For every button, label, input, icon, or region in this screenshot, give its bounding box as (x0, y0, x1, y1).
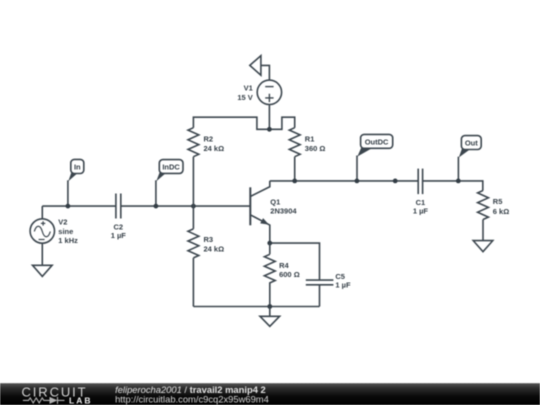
svg-text:15 V: 15 V (237, 93, 252, 102)
svg-text:R5: R5 (493, 197, 503, 206)
node V1 rail junction (267, 127, 272, 132)
svg-text:R4: R4 (279, 261, 289, 270)
svg-text:R2: R2 (204, 135, 214, 144)
node R4 C5 ground junction (267, 304, 272, 309)
svg-text:2N3904: 2N3904 (270, 207, 297, 216)
wire R1 bottom lead (294, 157, 296, 181)
footer title text (115, 384, 269, 404)
flag label InDC (156, 160, 183, 207)
wire R3 bottom lead (192, 258, 194, 307)
svg-text:Out: Out (465, 139, 478, 148)
svg-text:R1: R1 (305, 135, 315, 144)
svg-text:C1: C1 (416, 198, 426, 207)
svg-text:R3: R3 (204, 235, 214, 244)
svg-text:V2: V2 (58, 218, 67, 227)
svg-text:24 kΩ: 24 kΩ (204, 144, 225, 153)
svg-text:360 Ω: 360 Ω (305, 144, 326, 153)
node InDC junction (154, 204, 159, 209)
svg-text:24 kΩ: 24 kΩ (204, 245, 225, 254)
flag label Out (458, 136, 481, 181)
svg-text:OutDC: OutDC (365, 137, 389, 146)
resistor R3 (188, 229, 199, 258)
svg-text:1 µF: 1 µF (335, 280, 351, 289)
node mid wire junction (393, 179, 398, 184)
node OutDC junction (355, 179, 360, 184)
wire input left segment (42, 205, 116, 207)
voltage source V2 (30, 219, 54, 243)
wire R2 bottom lead (192, 157, 194, 229)
wire input right segment (121, 205, 251, 207)
svg-text:1 kHz: 1 kHz (58, 236, 78, 245)
svg-text:sine: sine (58, 227, 73, 236)
svg-text:1 µF: 1 µF (111, 231, 127, 240)
wire collector output segment (270, 180, 418, 182)
resistor R4 (264, 243, 275, 306)
resistor R5 (478, 191, 489, 220)
footer bar (0, 383, 540, 405)
svg-text:In: In (74, 162, 81, 171)
wire C1 to R5 (423, 181, 483, 191)
transistor Q1 (250, 181, 269, 243)
svg-text:C2: C2 (114, 223, 124, 232)
ground at V1 top (250, 56, 261, 76)
wire top rail (193, 117, 294, 129)
node collector junction (292, 179, 297, 184)
wire emitter to C5 (270, 243, 320, 280)
ground under R5 (473, 220, 493, 252)
flag label In (68, 159, 84, 206)
ground under emitter network (260, 307, 280, 327)
capacitor C1 (418, 169, 422, 195)
node emitter junction (267, 241, 272, 246)
CircuitLab logo (22, 385, 93, 405)
voltage source V1 (257, 65, 281, 129)
wire V2 top lead (41, 206, 43, 219)
svg-text:V1: V1 (244, 84, 253, 93)
svg-text:http://circuitlab.com/c9cq2x95: http://circuitlab.com/c9cq2x95w69m4 (115, 393, 269, 404)
ground under V2 (33, 243, 53, 276)
node base junction (191, 204, 196, 209)
flag label OutDC (357, 134, 393, 181)
node In junction (66, 204, 71, 209)
svg-text:Q1: Q1 (270, 198, 280, 207)
svg-text:600 Ω: 600 Ω (279, 270, 300, 279)
capacitor C2 (116, 194, 121, 219)
svg-text:InDC: InDC (162, 162, 180, 171)
resistor R1 (289, 128, 300, 157)
resistor R2 (188, 128, 199, 157)
svg-text:6 kΩ: 6 kΩ (493, 207, 509, 216)
svg-text:1 µF: 1 µF (413, 207, 429, 216)
svg-text:LAB: LAB (69, 395, 92, 405)
wire bottom ground rail (193, 306, 319, 308)
node Out junction (456, 179, 461, 184)
capacitor C5 (306, 280, 334, 306)
